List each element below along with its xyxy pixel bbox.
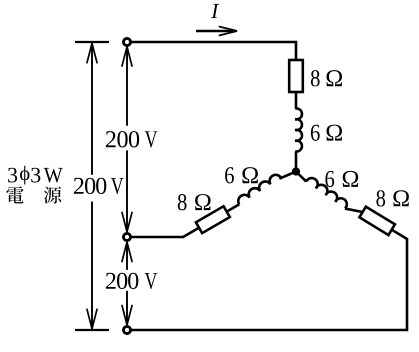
wire top line from terminal U to resistor (127, 42, 296, 60)
label 200 V bottom phase voltage (106, 273, 116, 289)
label source name 3-phase 3-wire (8, 168, 17, 183)
outer dimension line 200V line-to-line upper part (91, 44, 93, 175)
label R3 value 8 ohm (376, 190, 385, 206)
wire right branch lower segment (392, 230, 408, 240)
right branch group (293, 166, 411, 245)
inner dimension line top 200V upper part (126, 48, 128, 126)
arrowheads of dimension lines (87, 43, 132, 329)
inductor L1 6 ohm vertical (295, 108, 302, 151)
wire right branch upper segment from star (294, 172, 308, 182)
inner dimension line bottom 200V lower part (126, 291, 128, 325)
outer dimension line lower part (91, 202, 93, 328)
wire L1 to star node (295, 151, 298, 171)
inductor L2 6 ohm left branch (236, 172, 281, 204)
label L2 value 6 ohm (225, 167, 234, 183)
wire middle line from terminal V (127, 236, 184, 239)
star point neutral node (292, 167, 300, 175)
label R1 value 8 ohm (311, 70, 320, 86)
label kanji GEN (source) (44, 187, 61, 204)
dimension tick top (75, 41, 109, 43)
resistor R3 8 ohm right branch (359, 207, 395, 235)
inductor L3 6 ohm right branch (306, 176, 349, 209)
dimension tick bottom (75, 329, 109, 331)
wire left branch upper segment to star (279, 170, 296, 181)
inner dimension line top 200V lower part (126, 150, 128, 231)
resistor R1 8 ohm vertical (289, 60, 303, 92)
wire left branch middle segment (227, 204, 240, 211)
wire right branch middle segment (345, 203, 363, 217)
label current I (211, 4, 219, 18)
label kanji DEN (electric) (6, 186, 23, 203)
current arrow head (220, 27, 238, 36)
wire left branch lower segment (182, 227, 199, 237)
arrowhead outer top up (87, 43, 97, 63)
current arrow line (196, 30, 233, 32)
left branch group (178, 164, 299, 243)
wire between R1 and L1 (295, 92, 298, 109)
inner dimension line bottom 200V upper part (126, 243, 128, 270)
arrowhead inner V bottom-side up (122, 242, 132, 262)
terminal V middle open circle (123, 233, 130, 240)
arrowhead inner V top-side down (122, 212, 132, 232)
wire bottom line from terminal W and right riser (127, 239, 407, 330)
arrowhead inner W top-side down (122, 306, 132, 326)
label L1 value 6 ohm (311, 125, 320, 141)
label 200 V middle phase voltage (74, 178, 84, 194)
resistor R2 8 ohm left branch (196, 206, 230, 233)
arrowhead outer bottom down (87, 309, 97, 329)
terminal U top open circle (123, 38, 130, 45)
terminal W bottom open circle (123, 326, 130, 333)
label R2 value 8 ohm (178, 194, 187, 210)
label L3 value 6 ohm (325, 171, 334, 187)
arrowhead inner U down-side up (122, 47, 132, 67)
label 200 V top phase voltage (106, 131, 116, 147)
